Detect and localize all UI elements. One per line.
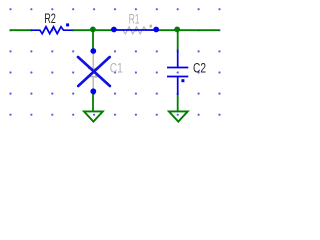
marker square R1 — [150, 25, 153, 28]
wire — [72, 29, 111, 31]
marker square C2 — [181, 79, 184, 82]
wire — [177, 31, 179, 50]
wire — [10, 29, 31, 31]
node (pin dot C1 bottom) — [90, 88, 96, 94]
capacitor C1 (ghost) — [88, 51, 99, 91]
grid dot inside ground 2 — [177, 114, 179, 116]
svg-text:R1: R1 — [129, 11, 140, 26]
wire — [177, 95, 179, 111]
svg-text:C1: C1 — [110, 61, 123, 76]
wire (selected blue over R1) — [112, 29, 159, 31]
junction node A — [90, 27, 96, 33]
resistor R2 — [31, 27, 73, 34]
marker X over C1 — [78, 57, 110, 86]
wire — [92, 31, 94, 51]
ground GND1 — [84, 111, 103, 121]
ground GND2 — [169, 111, 188, 121]
marker square R2 — [66, 23, 69, 26]
capacitor C2 — [167, 50, 188, 96]
svg-text:R2: R2 — [44, 11, 56, 26]
junction node B — [174, 27, 180, 33]
marker square C1 — [95, 75, 98, 78]
grid dot inside ground 1 — [93, 114, 95, 116]
resistor R1 (ghost) — [114, 27, 156, 34]
wire — [159, 29, 220, 31]
node (pin dot C1 top) — [90, 48, 96, 54]
svg-text:C2: C2 — [193, 61, 206, 76]
wire — [92, 91, 94, 110]
node (pin dot R1 left) — [111, 27, 117, 33]
node (pin dot R1 right) — [153, 27, 159, 33]
